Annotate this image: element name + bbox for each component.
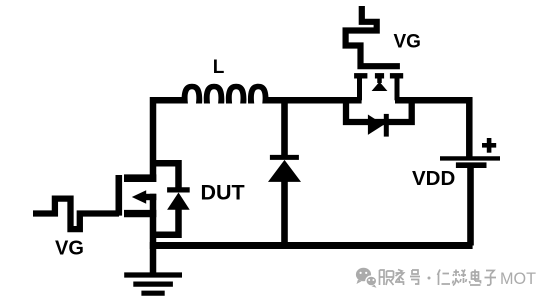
body diode of Q2: loop — [346, 97, 412, 122]
char 务 — [395, 270, 404, 286]
transistor Q1 DUT: drain channel dash — [124, 174, 156, 182]
body diode of Q1: loop top — [153, 163, 179, 189]
transistor Q2: right stub to rail — [395, 78, 400, 100]
transistor Q1 DUT: gate bar — [116, 175, 123, 216]
body diode of Q2: triangle (points right) — [368, 115, 384, 135]
diode D1: triangle — [268, 160, 301, 182]
separator dot — [428, 277, 431, 280]
transistor Q2: body arrow (up) — [372, 82, 388, 91]
pulse source VG (left) — [33, 199, 119, 230]
char 仁 — [438, 270, 451, 286]
char 号 — [410, 270, 420, 284]
diode D1: bottom stub — [281, 179, 288, 246]
svg-text:VG: VG — [394, 32, 421, 53]
transistor Q2: right channel dash — [390, 73, 403, 78]
watermark wechat icon — [356, 268, 377, 288]
battery plus sign — [482, 138, 496, 153]
svg-text:DUT: DUT — [201, 180, 245, 204]
wire: top rail inductor to Q2 left stub — [266, 97, 362, 104]
wire: top rail left corner + drain trunk to DUT — [153, 100, 183, 182]
inductor L — [182, 84, 269, 104]
diode D1 (freewheeling, middle): top stub — [281, 97, 288, 157]
transistor Q2: left channel dash — [354, 73, 367, 78]
char 服 — [380, 270, 394, 285]
char 子 — [485, 271, 497, 286]
transistor Q2: left stub to rail — [357, 78, 362, 100]
watermark text: 服务号 · 仁懋电子MOT (drawn strokes for CJK) — [380, 270, 497, 286]
svg-text:L: L — [213, 57, 225, 78]
diode D1: cathode bar — [270, 155, 299, 160]
ground — [124, 275, 182, 293]
wire: bottom rail — [150, 242, 473, 249]
transistor Q1 DUT: body arrow — [132, 190, 146, 204]
pulse source VG (top) + Q2 gate plate — [346, 6, 400, 66]
body diode of Q1: loop bottom — [153, 209, 179, 235]
char 电 — [470, 270, 481, 286]
char 懋 — [453, 270, 467, 286]
svg-text:VDD: VDD — [412, 167, 455, 190]
wire: Q1 source trunk down through bottom rail to ground — [150, 194, 157, 276]
transistor Q1 DUT: source channel dash — [124, 210, 156, 217]
battery VDD: top plate — [440, 156, 500, 160]
body diode of Q1: triangle — [167, 193, 190, 210]
battery VDD: bottom plate — [456, 162, 487, 168]
svg-text:MOT: MOT — [500, 270, 536, 288]
transistor Q2: body stub — [377, 78, 382, 83]
wire: top rail Q2 right stub to battery corner — [395, 100, 469, 157]
transistor Q1 DUT: body channel line — [145, 194, 156, 200]
battery VDD: bottom stem — [467, 166, 474, 246]
body diode of Q1: cathode bar — [167, 187, 190, 192]
svg-text:VG: VG — [55, 238, 84, 260]
body diode of Q2: cathode bar — [384, 114, 389, 137]
transistor Q2: middle channel dash — [375, 73, 384, 78]
